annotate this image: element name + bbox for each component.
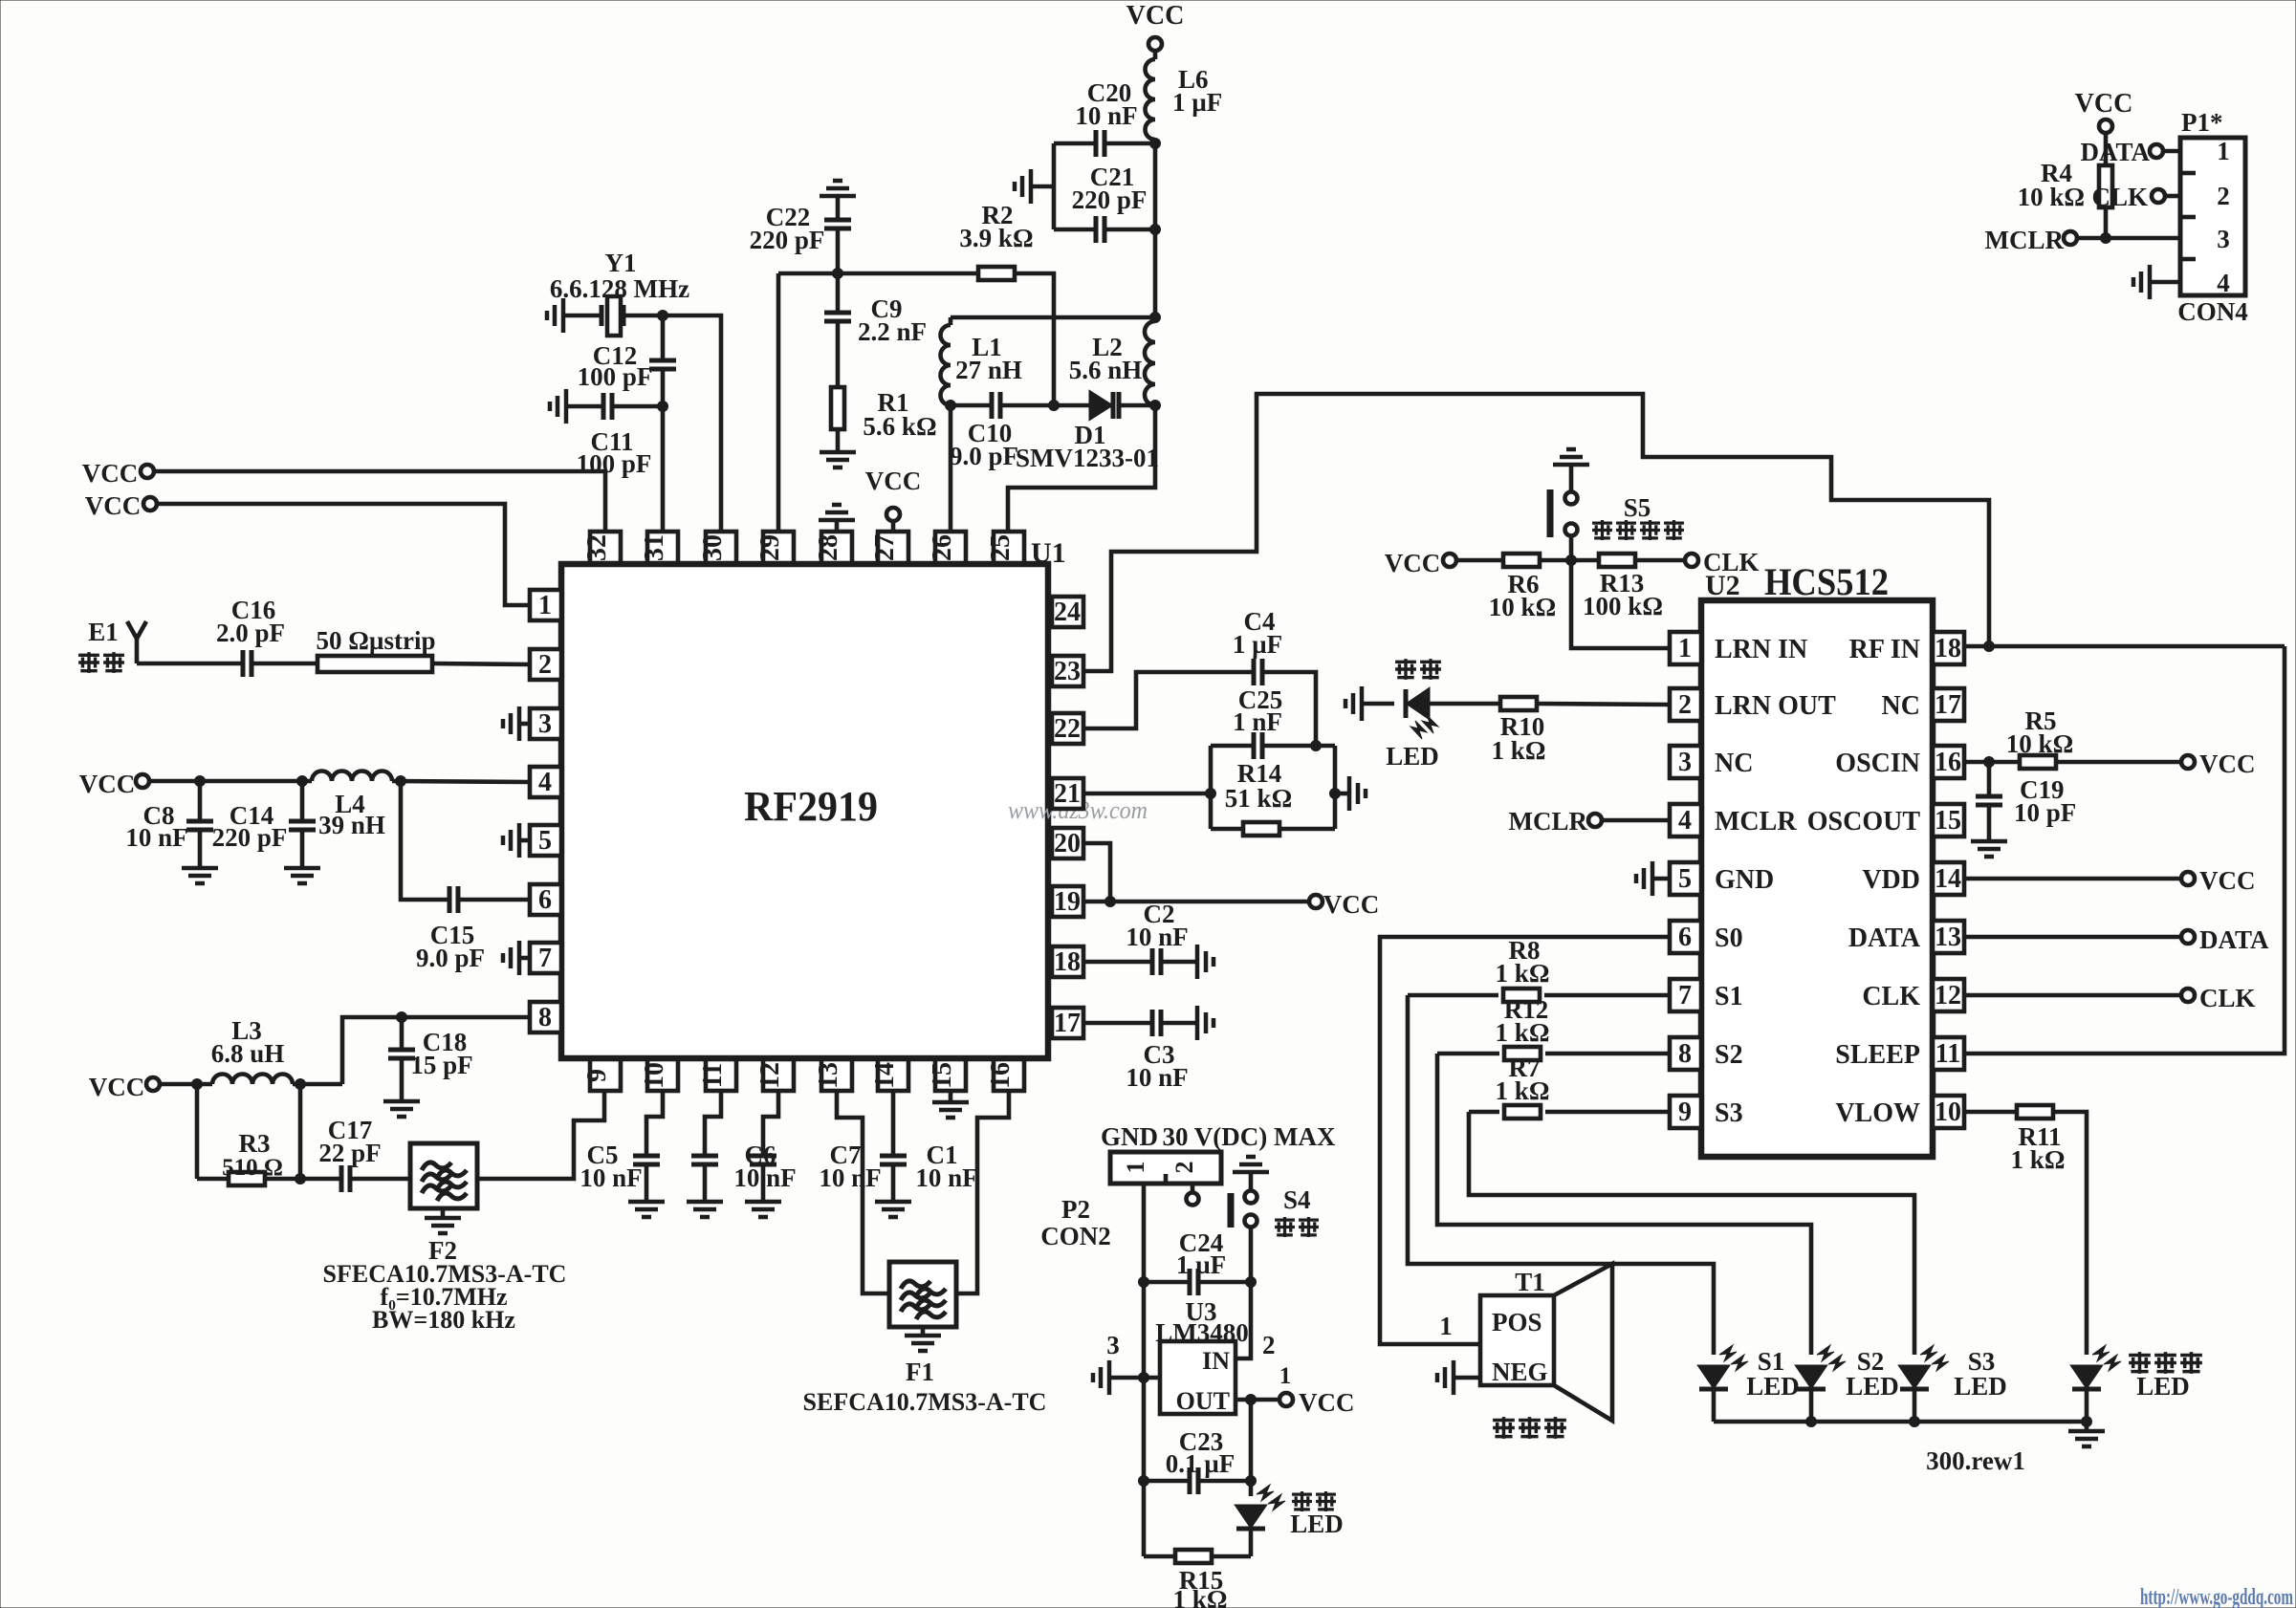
svg-text:1: 1 [2217,137,2230,165]
svg-text:16: 16 [1935,748,1961,777]
svg-text:510 Ω: 510 Ω [222,1155,283,1181]
svg-text:VCC: VCC [89,1073,145,1101]
svg-text:14: 14 [870,1062,900,1089]
wire pin13 to F1 [837,1091,890,1293]
svg-text:51 kΩ: 51 kΩ [1225,784,1292,813]
ground under LED rail [2068,1417,2105,1447]
svg-text:9: 9 [582,1069,612,1082]
svg-text:DATA: DATA [2081,138,2151,166]
wire R10 to U2 pin2 [1537,704,1670,705]
svg-text:LRN OUT: LRN OUT [1715,691,1836,721]
svg-text:5.6 kΩ: 5.6 kΩ [863,412,936,441]
wire P2 pin1 leg [1139,1184,1149,1556]
svg-text:26: 26 [928,534,957,561]
ground above C22 [820,181,856,196]
svg-text:GND: GND [1715,865,1774,895]
svg-text:LED: LED [1846,1372,1899,1401]
svg-text:VLOW: VLOW [1835,1098,1920,1128]
svg-text:SEFCA10.7MS3-A-TC: SEFCA10.7MS3-A-TC [803,1388,1047,1416]
svg-text:7: 7 [538,944,552,973]
svg-text:S2: S2 [1715,1040,1743,1070]
U1 pin 22 [1052,713,1083,744]
svg-text:27 nH: 27 nH [955,356,1022,384]
svg-text:10 nF: 10 nF [125,823,187,852]
U1 pin 2 [530,649,561,680]
ground under C8 [182,868,218,883]
svg-text:100 kΩ: 100 kΩ [1583,592,1663,620]
U1 pin 9 [582,1059,621,1091]
wire C4 to parallel block [1262,672,1322,751]
resistor R2 [959,201,1033,280]
svg-text:10 nF: 10 nF [1075,101,1137,130]
svg-text:SLEEP: SLEEP [1835,1040,1920,1070]
svg-text:SMV1233-01: SMV1233-01 [1016,444,1159,472]
svg-text:LED: LED [1386,742,1439,771]
svg-text:100 pF: 100 pF [578,362,653,391]
svg-text:220 pF: 220 pF [1072,185,1148,214]
svg-text:VCC: VCC [2199,866,2256,895]
svg-text:T1: T1 [1515,1268,1545,1296]
svg-text:S0: S0 [1715,924,1743,953]
wire P2 pin2 stub [1187,1184,1199,1206]
svg-text:DATA: DATA [2199,925,2269,954]
svg-text:VCC: VCC [1126,1,1185,31]
U1 pin 31 [640,532,678,563]
switch S4 [1231,1172,1319,1237]
svg-text:LM3480: LM3480 [1155,1318,1249,1347]
wire pin4 node to C15 [401,781,449,900]
U1 pin 15 [928,1059,966,1091]
ground under C6 [687,1202,723,1217]
svg-text:2: 2 [1678,690,1692,720]
wire U1 pin19 to VCC [1083,900,1309,904]
svg-text:VCC: VCC [79,770,136,798]
svg-text:23: 23 [1054,657,1081,686]
resistor R7 [1469,1054,1670,1119]
U1 pin 21 [1052,778,1083,809]
U1 pin 4 [530,767,561,797]
capacitor C15 [416,886,485,972]
svg-text:1: 1 [1678,634,1692,663]
svg-text:3: 3 [1106,1331,1120,1359]
wire R7 to LED S3 [1469,1112,1914,1355]
IC U2 HCS512 body [1701,560,1933,1157]
switch S5 [1550,465,1684,560]
svg-text:2.2 nF: 2.2 nF [858,317,927,346]
svg-text:CLK: CLK [1862,982,1920,1011]
svg-text:LED: LED [1290,1510,1344,1538]
capacitor C23 [1144,1427,1251,1494]
wire R13 to CLK [1635,558,1685,563]
svg-text:CON2: CON2 [1040,1222,1111,1250]
svg-text:S3: S3 [1715,1098,1743,1128]
svg-text:32: 32 [582,534,612,561]
IC U1 RF2919 body [561,537,1066,1058]
U1 pin 32 [582,532,621,563]
capacitor C19 [1976,762,2076,841]
wire R11 to low-battery LED [2053,1112,2087,1355]
svg-text:39 nH: 39 nH [318,811,385,839]
wire R2 to varactor node [1015,273,1054,405]
U2 pin 9 S3 [1670,1096,1743,1128]
LED learn [1362,659,1500,771]
VCC terminal at OSCIN [2181,750,2256,778]
resistor R14 parallel loop [1206,746,1341,836]
svg-text:Y1: Y1 [605,249,637,277]
inductor L2 [1069,321,1155,405]
ground left of C21 loop [1015,169,1054,204]
capacitor C5 [579,1091,663,1202]
svg-text:S4: S4 [1283,1185,1311,1214]
svg-text:10 pF: 10 pF [2014,798,2076,827]
svg-text:VCC: VCC [2199,750,2256,778]
wire U1 pin23 to U2 RF IN bus [1083,394,1989,671]
wire antenna to C16 [137,662,243,666]
wire pin16 to F1 [955,1091,1009,1293]
U2 pin 4 MCLR [1670,804,1797,837]
capacitor C12 [578,315,676,406]
capacitor C6 [691,1091,797,1202]
svg-text:10: 10 [1935,1097,1961,1127]
wire RF IN to SLEEP loop [1964,646,2285,1054]
capacitor C24 [1144,1228,1251,1295]
svg-text:NEG: NEG [1492,1358,1548,1386]
svg-text:27: 27 [870,534,900,561]
svg-text:6.8 uH: 6.8 uH [211,1039,285,1068]
svg-text:9.0 pF: 9.0 pF [416,944,485,972]
U1 pin 28 [814,532,852,563]
svg-text:IN: IN [1202,1347,1230,1375]
svg-text:16: 16 [986,1062,1016,1089]
wire Y1 to pin30 [658,311,722,532]
svg-text:10 nF: 10 nF [1126,1063,1188,1092]
ground at U1 pin15 [932,1091,969,1118]
VCC terminal above U1 pin27 [865,467,922,532]
svg-text:S1: S1 [1715,982,1743,1011]
wire L4 to pin4 [392,776,530,787]
ground under C19 [1971,841,2007,857]
U2 pin 10 VLOW [1835,1096,1964,1128]
U2 pin 3 NC [1670,746,1753,778]
DATA terminal at P1 [2081,138,2164,166]
svg-text:30: 30 [698,534,728,561]
capacitor C3 [1083,1010,1197,1092]
svg-text:1 µF: 1 µF [1233,630,1282,659]
ground at buzzer NEG [1437,1360,1480,1395]
capacitor C22 [750,196,851,273]
VCC terminal (to U1 pin 32) [82,459,154,488]
ground right of R14 block [1335,776,1366,811]
svg-text:U1: U1 [1031,537,1066,569]
ground at P1 pin4 [2133,265,2180,299]
wire DATA out [1964,935,2181,940]
svg-text:S5: S5 [1624,493,1651,522]
VCC terminal (to U1 pin 1) [85,491,157,520]
filter F1 [803,1262,1047,1416]
VCC terminal (L3 rail) [89,1073,160,1101]
wire R12 to LED S2 [1437,1054,1811,1355]
svg-text:1 kΩ: 1 kΩ [2011,1145,2066,1174]
capacitor C18 [388,1017,473,1101]
svg-text:U2: U2 [1705,570,1740,601]
ground under C14 [284,868,320,883]
svg-text:24: 24 [1054,598,1081,627]
LED power [1236,1481,1344,1556]
svg-text:5: 5 [1678,864,1692,894]
svg-text:4: 4 [1678,806,1692,836]
ground under R1 [820,452,856,467]
svg-text:28: 28 [814,534,843,561]
svg-text:VCC: VCC [1299,1388,1355,1417]
resistor R4 [2018,133,2112,238]
wire C17 to F2 [350,1177,410,1182]
ground at U1 pin7 [503,941,530,975]
svg-text:P1*: P1* [2181,108,2223,137]
connector P1 CON4 [2177,108,2248,326]
wire VCC to pin1 [157,504,530,605]
capacitor C21 [1054,163,1161,243]
svg-text:3: 3 [1678,748,1692,777]
wire S0 to buzzer [1380,937,1670,1344]
inductor L1 [941,317,1022,411]
svg-text:1 kΩ: 1 kΩ [1496,1076,1550,1105]
ground at U1 pin5 [503,823,530,858]
svg-text:http://www.go-gddq.com: http://www.go-gddq.com [2140,1585,2293,1608]
ground above U1 pin28 [819,505,855,532]
U1 pin 14 [870,1059,908,1091]
wire osc node left [951,315,1155,320]
svg-text:6.6.128 MHz: 6.6.128 MHz [550,274,689,303]
U1 pin 26 [928,532,966,563]
svg-text:3: 3 [2217,225,2230,253]
resistor R12 [1437,995,1670,1060]
label 1 at buzzer [1439,1312,1453,1340]
svg-text:31: 31 [640,534,669,561]
svg-text:OSCIN: OSCIN [1835,749,1920,778]
svg-text:VDD: VDD [1862,865,1920,895]
U2 pin 5 GND [1670,862,1774,895]
wire C15 to pin6 [458,898,530,902]
svg-text:11: 11 [1935,1039,1960,1069]
svg-text:1 kΩ: 1 kΩ [1496,1018,1550,1047]
svg-text:220 pF: 220 pF [212,823,288,852]
terminal bars above S4 [1233,1157,1269,1172]
resistor R6 [1456,554,1556,621]
svg-text:9.0 pF: 9.0 pF [950,442,1018,470]
capacitor C9 [824,273,927,387]
svg-text:POS: POS [1492,1308,1542,1336]
U2 pin 11 SLEEP [1835,1037,1964,1070]
svg-text:15: 15 [1935,806,1961,836]
wire S4 to U3 IN [1235,1228,1257,1358]
VCC terminal at U3 OUT [1279,1363,1355,1417]
svg-text:OUT: OUT [1176,1387,1230,1415]
capacitor C2 [1083,900,1197,975]
wire VCC to L3 [160,1079,212,1090]
ground at U1 pin3 [503,706,530,741]
LED S2 [1797,1345,1899,1422]
resistor R1 [831,387,937,452]
wire MCLR to P1 pin3 [2077,233,2180,244]
svg-text:220 pF: 220 pF [750,226,825,254]
U1 pin 13 [814,1059,852,1091]
MCLR terminal [1509,807,1671,836]
ground under C5 [628,1202,665,1217]
svg-text:25: 25 [986,534,1016,561]
svg-text:0.1 µF: 0.1 µF [1166,1449,1235,1478]
wire VDD to VCC [1964,877,2181,881]
ground above S5 [1553,449,1589,465]
microstrip 50ohm [317,626,436,672]
resistor R15 [1144,1550,1251,1608]
ground under F1 [905,1326,941,1351]
wire OUT node down [1246,1400,1257,1487]
U1 pin 1 [530,590,561,620]
U2 pin 15 OSCOUT [1807,804,1964,837]
connector P2 CON2 [1040,1152,1221,1250]
U2 pin 1 LRN IN [1670,632,1807,664]
svg-text:RF IN: RF IN [1849,635,1920,664]
svg-text:10 nF: 10 nF [915,1163,977,1192]
svg-text:10 kΩ: 10 kΩ [1489,593,1556,621]
wire C20-C21 left leg [1052,143,1057,229]
svg-text:R3: R3 [239,1129,271,1158]
svg-text:10: 10 [640,1062,669,1089]
wire VCC rail to L4 [149,776,312,787]
wire C16 to strip [251,662,317,666]
U1 pin 20 [1052,828,1083,858]
watermark go-gddq [2140,1585,2293,1608]
svg-text:4: 4 [2217,269,2230,297]
ground at U2 pin5 [1636,861,1670,896]
resistor R10 [1492,697,1546,765]
U1 pin 5 [530,825,561,856]
svg-text:29: 29 [755,534,785,561]
ground under F2 [425,1208,461,1233]
svg-text:2: 2 [1170,1162,1198,1174]
buzzer T1 [1480,1264,1612,1439]
svg-text:19: 19 [1054,887,1081,917]
svg-text:1 kΩ: 1 kΩ [1492,736,1546,765]
svg-text:30 V(DC) MAX: 30 V(DC) MAX [1163,1122,1336,1151]
inductor L6 [1146,51,1223,143]
wire U1 pin20 jog [1083,843,1116,907]
U2 pin 6 S0 [1670,921,1743,953]
U1 pin 17 [1052,1008,1083,1038]
wire C11/C12 node to pin31 [658,402,668,532]
LED low voltage [2072,1345,2202,1422]
U1 pin 27 [870,532,908,563]
svg-text:3.9 kΩ: 3.9 kΩ [959,224,1033,252]
svg-text:18: 18 [1935,634,1961,663]
LED S1 [1699,1345,1800,1422]
svg-text:11: 11 [698,1063,728,1088]
svg-text:6: 6 [1678,923,1692,952]
wire strip to pin2 [432,663,530,664]
wire node to pin8 [342,1012,530,1085]
ground right of C3 [1197,1006,1214,1040]
svg-text:21: 21 [1054,779,1081,809]
wire VCC down to R3 [195,1084,200,1179]
ground under C18 [383,1101,420,1117]
svg-text:NC: NC [1715,749,1753,778]
svg-text:VCC: VCC [1323,890,1380,919]
wire L3 down to R3 [298,1084,303,1179]
svg-text:DATA: DATA [1848,924,1921,953]
svg-text:HCS512: HCS512 [1764,560,1889,603]
wire C22 node to R2 [778,269,978,279]
crystal Y1 [550,249,689,336]
svg-text:OSCOUT: OSCOUT [1807,807,1921,837]
svg-text:12: 12 [755,1062,785,1089]
antenna E1 [78,618,146,673]
wire CLK to P1 pin2 [2165,194,2180,199]
VCC terminal at R6 [1385,549,1456,577]
svg-text:LED: LED [1954,1372,2007,1401]
svg-text:VCC: VCC [82,459,139,488]
CLK terminal right [2181,984,2256,1012]
svg-text:10 kΩ: 10 kΩ [2018,183,2085,211]
wire U3 OUT to VCC [1235,1395,1279,1405]
wire U1 pin22 to C4 [1083,672,1254,728]
svg-text:9: 9 [1678,1097,1692,1127]
label 300.rew1 [1926,1446,2025,1475]
svg-text:10 nF: 10 nF [1126,923,1188,951]
U2 pin 8 S2 [1670,1037,1743,1070]
svg-text:NC: NC [1882,691,1920,721]
ground under C7 [745,1202,781,1217]
capacitor C4 [1233,607,1282,685]
IC U3 LM3480 [1155,1297,1249,1415]
wire U1 pin21 to R14 block [1083,792,1211,796]
VCC terminal top [1126,1,1185,51]
U1 pin 8 [530,1002,561,1032]
resistor R3 [197,1129,306,1185]
wire L3 node [293,1079,342,1090]
svg-text:13: 13 [1935,923,1961,952]
U1 pin 25 [986,532,1024,563]
label 3 at U3 GND [1106,1331,1120,1359]
U2 pin 18 RF IN [1849,632,1964,664]
resistor R8 [1408,936,1670,1002]
VCC terminal at VDD [2181,866,2256,895]
U1 pin 11 [698,1059,736,1091]
svg-text:P2: P2 [1061,1195,1090,1224]
ground left of Y1 [547,298,563,333]
svg-text:50 Ωµstrip: 50 Ωµstrip [317,626,436,655]
svg-text:MCLR: MCLR [1985,226,2065,254]
svg-text:LED: LED [1746,1372,1800,1401]
U1 pin 24 [1052,597,1083,627]
svg-text:F1: F1 [906,1358,934,1386]
wire tank node to pin25 [1008,401,1161,532]
U2 pin 16 OSCIN [1835,746,1964,778]
svg-text:12: 12 [1935,981,1961,1010]
wire VCC to pin32 [154,471,605,532]
capacitor C7 [750,1091,882,1202]
svg-text:CLK: CLK [2199,984,2256,1012]
svg-text:LRN IN: LRN IN [1715,635,1807,664]
svg-text:1 µF: 1 µF [1172,88,1222,117]
VCC terminal (pin4 rail) [79,770,149,798]
U1 pin 19 [1052,886,1083,917]
CLK terminal [1685,548,1760,576]
U1 pin 3 [530,708,561,739]
DATA terminal [2181,925,2269,954]
capacitor C20 [1054,78,1161,157]
capacitor C17 [300,1116,382,1192]
VCC terminal at pin19 [1309,890,1379,919]
